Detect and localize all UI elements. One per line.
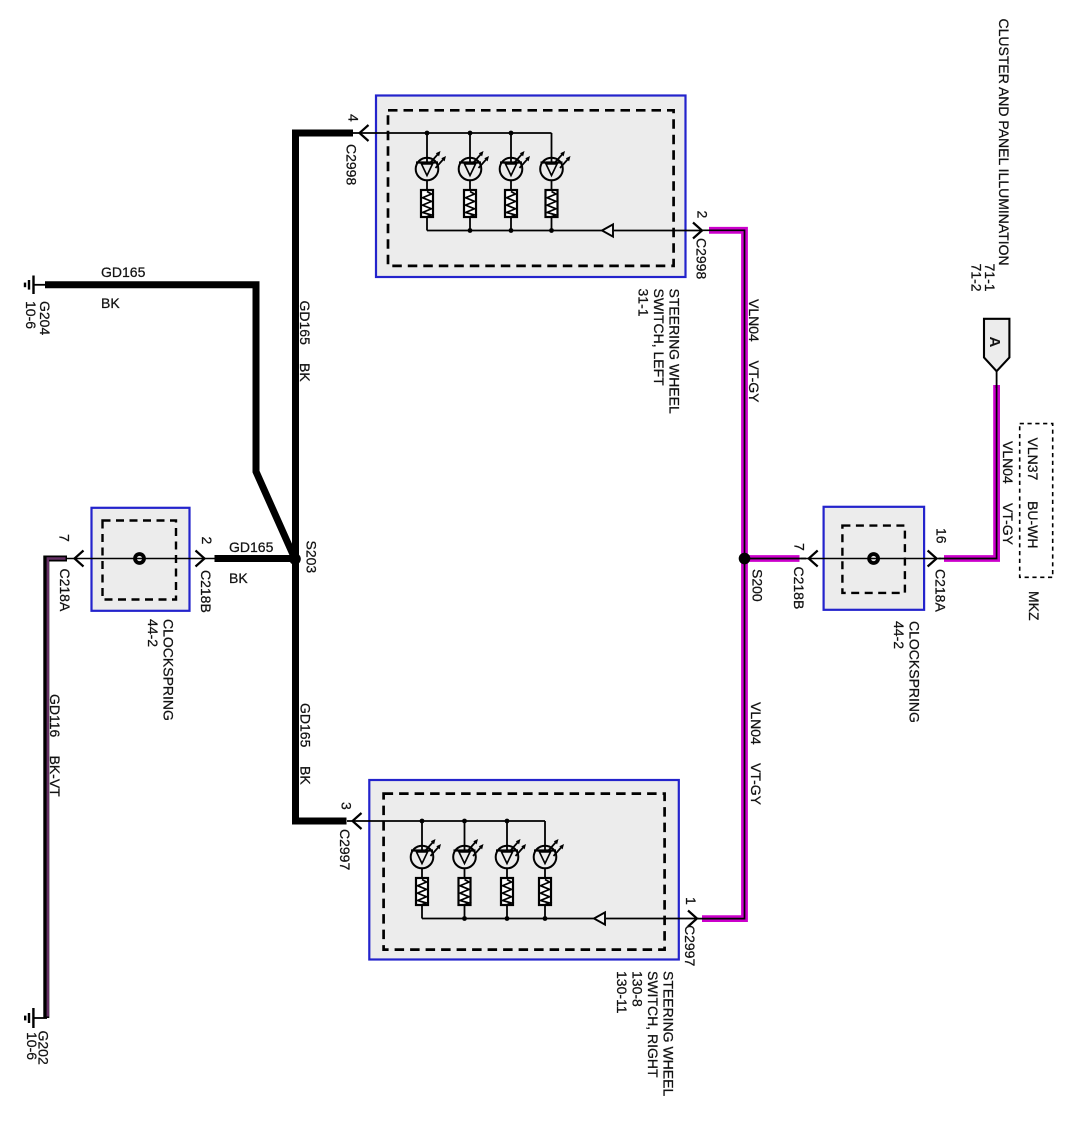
svg-text:VLN04: VLN04: [746, 299, 762, 342]
svg-text:SWITCH, LEFT: SWITCH, LEFT: [651, 289, 667, 387]
svg-text:C2997: C2997: [337, 829, 353, 870]
svg-text:10-6: 10-6: [23, 301, 39, 329]
pin 1 arrow C2997: [688, 911, 697, 927]
svg-text:STEERING WHEEL: STEERING WHEEL: [667, 289, 683, 414]
svg-text:BK: BK: [298, 766, 314, 785]
svg-text:16: 16: [934, 528, 950, 544]
wire GD165 clockspring branch: [215, 555, 296, 562]
svg-text:1: 1: [683, 897, 699, 905]
junction dot: [425, 131, 430, 136]
diode D1 right switch: [594, 912, 605, 924]
lamp LED 1 left switch: [416, 133, 446, 231]
pin 2 arrow C218B: [196, 551, 205, 567]
clockspring left outer box: [92, 508, 190, 611]
pin 7 arrow C218B right: [809, 551, 818, 567]
junction dot: [462, 916, 467, 921]
svg-text:C218A: C218A: [933, 569, 949, 612]
MKZ option dashed box: [1020, 424, 1053, 578]
svg-text:CLOCKSPRING: CLOCKSPRING: [907, 621, 923, 723]
clockspring left coil symbol: [135, 554, 144, 563]
splice S203: [289, 553, 301, 565]
ground G202 lead: [33, 1017, 47, 1019]
svg-text:VT-GY: VT-GY: [748, 763, 764, 806]
wire internal clockspring left: [67, 558, 215, 560]
wire VLN04 main magenta: [702, 230, 745, 918]
pin 16 arrow C218A right: [928, 551, 937, 567]
clockspring right coil symbol: [869, 554, 878, 563]
junction dot: [468, 228, 473, 233]
wire VLN04 to A black core: [939, 385, 997, 559]
svg-text:C218A: C218A: [57, 569, 73, 612]
ground G204 symbol: [32, 276, 34, 295]
svg-text:SWITCH, RIGHT: SWITCH, RIGHT: [645, 971, 661, 1078]
svg-text:44-2: 44-2: [145, 619, 161, 647]
lamp LED 1 right switch: [411, 821, 441, 919]
svg-text:S200: S200: [750, 569, 766, 602]
clockspring left dashed boundary: [103, 521, 177, 600]
wire lead connector A: [996, 371, 998, 389]
junction dot: [509, 131, 514, 136]
svg-text:2: 2: [695, 211, 711, 219]
wire diode to pin 1: [606, 918, 699, 920]
wire VLN04 branch black core: [745, 558, 807, 560]
svg-text:C2998: C2998: [694, 238, 710, 279]
wire VLN04 branch to clockspring magenta: [745, 555, 800, 562]
svg-text:STEERING WHEEL: STEERING WHEEL: [661, 971, 677, 1096]
lamp LED 2 left switch: [459, 133, 489, 231]
svg-text:C218B: C218B: [791, 567, 807, 610]
svg-text:VT-GY: VT-GY: [746, 361, 762, 404]
svg-text:GD165: GD165: [298, 703, 314, 748]
svg-text:BK-VT: BK-VT: [47, 756, 63, 798]
wire internal bottom bus right switch: [422, 918, 594, 920]
wire diode to pin 2: [614, 230, 703, 232]
svg-text:130-8: 130-8: [630, 971, 646, 1007]
svg-text:C218B: C218B: [198, 570, 214, 613]
clockspring right dashed boundary: [842, 526, 905, 593]
svg-text:VLN37: VLN37: [1025, 438, 1041, 481]
lamp LED 4 left switch: [540, 133, 570, 231]
pin 7 arrow C218A: [75, 551, 84, 567]
ground G204 lead: [34, 284, 47, 286]
svg-text:4: 4: [346, 114, 362, 122]
wire GD165 main vertical trunk: [296, 133, 354, 821]
pin 2 arrow C2998: [693, 223, 702, 239]
svg-text:GD165: GD165: [297, 301, 313, 346]
svg-text:CLUSTER AND PANEL ILLUMINATION: CLUSTER AND PANEL ILLUMINATION: [996, 19, 1012, 266]
wire VLN04 to A magenta: [944, 385, 997, 559]
svg-text:GD165: GD165: [101, 264, 146, 280]
junction dot: [505, 819, 510, 824]
svg-text:VLN04: VLN04: [1000, 441, 1016, 484]
lamp LED 2 right switch: [453, 821, 483, 919]
lamp LED 3 left switch: [500, 133, 530, 231]
junction dot: [505, 916, 510, 921]
svg-text:BK: BK: [229, 570, 248, 586]
svg-text:A: A: [986, 337, 1003, 348]
wire GD116 violet core: [48, 559, 66, 1017]
wire internal clockspring right: [801, 558, 941, 560]
svg-text:44-2: 44-2: [891, 621, 907, 649]
junction dot: [509, 228, 514, 233]
switch right dashed boundary: [384, 794, 665, 950]
clockspring right outer box: [824, 507, 925, 610]
svg-text:2: 2: [199, 537, 215, 545]
wire internal bottom bus left switch: [427, 230, 602, 232]
svg-text:GD116: GD116: [47, 694, 63, 738]
switch left dashed boundary: [388, 110, 674, 266]
svg-text:71-2: 71-2: [969, 264, 985, 292]
ground G202 symbol: [32, 1008, 34, 1028]
svg-text:BU-WH: BU-WH: [1025, 501, 1041, 548]
svg-text:7: 7: [57, 534, 73, 542]
svg-text:3: 3: [339, 802, 355, 810]
svg-text:S203: S203: [304, 541, 320, 574]
pin 4 arrow C2998: [360, 125, 369, 141]
svg-text:10-6: 10-6: [24, 1032, 40, 1060]
junction dot: [468, 131, 473, 136]
wire GD116 black outer: [46, 559, 67, 1019]
junction dot: [543, 916, 548, 921]
switch left outer box U-left: [376, 96, 686, 278]
wire internal top bus left switch: [353, 132, 552, 134]
wire GD165 ground run to G204: [45, 285, 295, 559]
junction dot: [420, 819, 425, 824]
wire VLN04 main black core: [698, 230, 745, 918]
wire internal top bus right switch: [347, 820, 545, 822]
lamp LED 3 right switch: [496, 821, 526, 919]
svg-text:GD165: GD165: [229, 539, 274, 555]
svg-text:VLN04: VLN04: [748, 702, 764, 745]
svg-text:MKZ: MKZ: [1026, 591, 1042, 621]
svg-text:C2997: C2997: [682, 925, 698, 966]
junction dot: [462, 819, 467, 824]
svg-text:31-1: 31-1: [636, 289, 652, 317]
switch right outer box: [369, 780, 679, 960]
svg-text:C2998: C2998: [344, 144, 360, 185]
svg-text:CLOCKSPRING: CLOCKSPRING: [161, 619, 177, 721]
svg-text:BK: BK: [297, 363, 313, 382]
connector A symbol: [984, 319, 1009, 371]
pin 3 arrow C2997: [353, 813, 362, 829]
svg-text:VT-GY: VT-GY: [1000, 503, 1016, 546]
svg-text:7: 7: [792, 543, 808, 551]
lamp LED 4 right switch: [534, 821, 564, 919]
svg-text:130-11: 130-11: [614, 971, 630, 1014]
svg-text:BK: BK: [101, 295, 120, 311]
junction dot: [549, 228, 554, 233]
diode D1 left switch: [602, 224, 613, 236]
splice S200: [739, 553, 751, 565]
